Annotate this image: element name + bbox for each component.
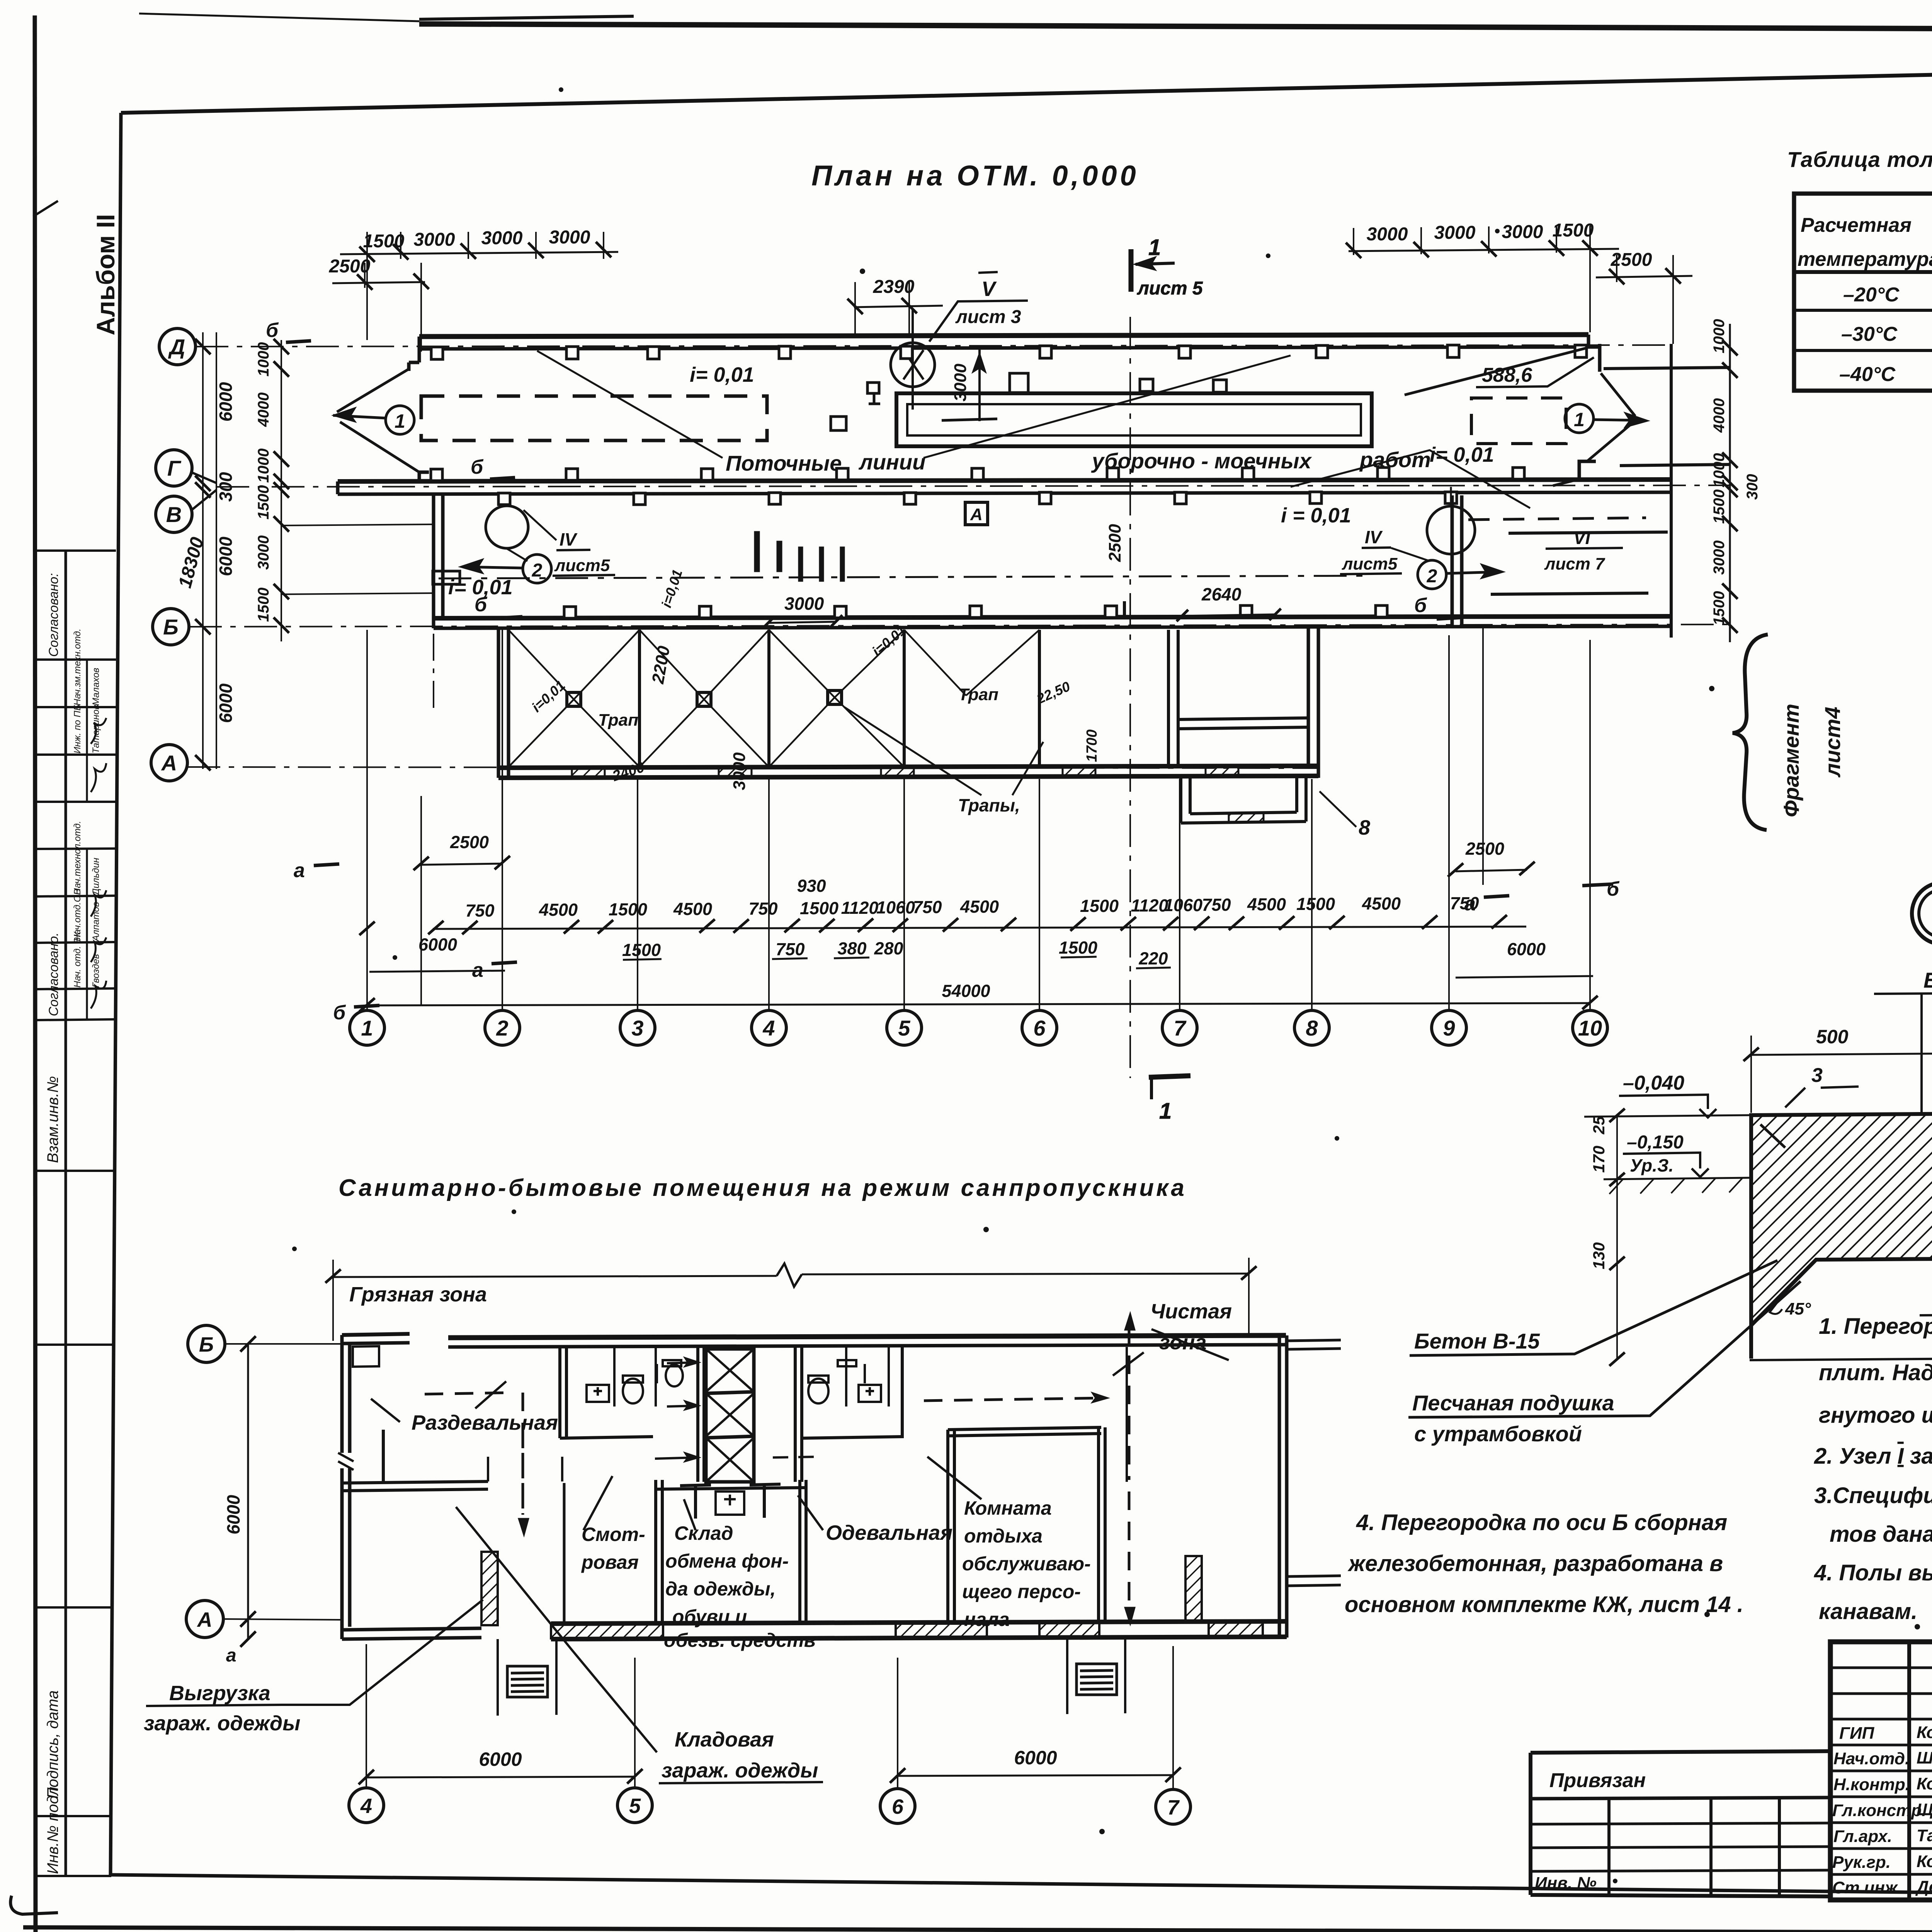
- svg-text:1000: 1000: [255, 342, 272, 377]
- svg-text:Грязная зона: Грязная зона: [349, 1283, 487, 1306]
- svg-text:да одежды,: да одежды,: [665, 1578, 776, 1600]
- svg-text:Коростелев: Коростелев: [1917, 1723, 1932, 1742]
- svg-text:температураtн: температураtн: [1798, 248, 1932, 270]
- svg-text:Деревянкина: Деревянкина: [1915, 1878, 1932, 1896]
- part labels 3,5,4: [1785, 1064, 1932, 1187]
- svg-text:4500: 4500: [1362, 894, 1401, 913]
- svg-text:–0,040: –0,040: [1623, 1072, 1684, 1094]
- svg-text:–40°С: –40°С: [1839, 363, 1896, 386]
- dashed pit (left): [421, 396, 767, 440]
- svg-text:лист5: лист5: [1342, 554, 1398, 573]
- axis Г/В wall band: [338, 468, 1671, 505]
- svg-text:750: 750: [465, 901, 494, 920]
- svg-text:Выгрузка: Выгрузка: [169, 1682, 270, 1705]
- svg-text:1500: 1500: [1296, 894, 1335, 914]
- left end of top bay: [409, 337, 419, 371]
- svg-text:Бетон . Мрз 50: Бетон . Мрз 50: [1923, 968, 1932, 992]
- pilasters on top wall: [431, 345, 1587, 359]
- 588,6 label: [1476, 357, 1594, 387]
- svg-text:6: 6: [1033, 1016, 1046, 1040]
- svg-text:Инв.№ подл.: Инв.№ подл.: [44, 1782, 61, 1874]
- svg-text:Взам.инв.№: Взам.инв.№: [44, 1076, 61, 1163]
- svg-text:обезв. средств: обезв. средств: [664, 1629, 816, 1651]
- SPECKS: [292, 87, 1932, 1883]
- svg-text:3000: 3000: [549, 227, 590, 248]
- vertical grid extension lines: [367, 625, 1590, 1010]
- svg-text:3: 3: [1811, 1064, 1823, 1087]
- svg-text:2: 2: [532, 560, 543, 581]
- A box label: [965, 502, 988, 525]
- svg-text:1500: 1500: [622, 940, 661, 960]
- lower stub bay below cols 7-8: [1181, 778, 1306, 823]
- dashed pit (right, top bay): [1471, 398, 1566, 444]
- svg-text:6000: 6000: [216, 382, 236, 422]
- svg-text:лист4: лист4: [1820, 707, 1845, 778]
- small equipment marks in top bay: [831, 383, 880, 430]
- top dim line with break: [325, 1258, 1257, 1341]
- svg-text:линии: линии: [858, 450, 925, 474]
- mid bay right end wall: [1452, 495, 1462, 625]
- svg-text:6000: 6000: [418, 935, 457, 954]
- svg-text:Комната: Комната: [964, 1497, 1052, 1519]
- svg-text:1060: 1060: [876, 898, 915, 917]
- svg-text:6000: 6000: [223, 1495, 243, 1534]
- svg-text:V: V: [981, 277, 997, 301]
- svg-text:Склад: Склад: [674, 1522, 733, 1544]
- svg-text:Кладовая: Кладовая: [675, 1728, 774, 1751]
- svg-text:гнутого швеллера. Расход шв: гнутого швеллера. Расход швеллера см . с…: [1819, 1403, 1932, 1428]
- axis chain lines: [187, 317, 1730, 1078]
- svg-text:Трап: Трап: [598, 711, 638, 730]
- left dim chain of detail: [1609, 1109, 1625, 1366]
- stamp boxes: [37, 551, 116, 802]
- svg-text:Гл.арх.: Гл.арх.: [1833, 1827, 1892, 1846]
- svg-text:А: А: [970, 505, 983, 524]
- svg-text:3000: 3000: [414, 230, 455, 250]
- leader labels below detail: [1408, 1260, 1801, 1446]
- svg-text:Раздевальная: Раздевальная: [412, 1411, 558, 1434]
- svg-text:4: 4: [762, 1016, 775, 1040]
- svg-text:Расчетная: Расчетная: [1801, 214, 1912, 236]
- ventilation grates: [498, 1637, 1125, 1716]
- svg-text:2: 2: [496, 1016, 508, 1040]
- svg-text:с утрамбовкой: с утрамбовкой: [1414, 1422, 1582, 1446]
- svg-text:б: б: [333, 1002, 346, 1024]
- room labels: [144, 1283, 1232, 1782]
- svg-text:1000: 1000: [1711, 319, 1728, 354]
- svg-text:1500: 1500: [1553, 220, 1594, 241]
- svg-text:зараж. одежды: зараж. одежды: [662, 1759, 818, 1782]
- svg-text:1: 1: [1574, 409, 1585, 430]
- svg-text:8: 8: [1359, 816, 1370, 839]
- lower block walls: [498, 628, 1318, 778]
- svg-text:Фрагмент: Фрагмент: [1779, 704, 1803, 817]
- svg-text:Гл.констр.: Гл.констр.: [1832, 1801, 1926, 1820]
- svg-text:4. Перегородка по оси Б сборн: 4. Перегородка по оси Б сборная: [1356, 1510, 1727, 1535]
- svg-text:750: 750: [1202, 895, 1231, 915]
- svg-text:А: А: [161, 751, 177, 775]
- svg-text:б: б: [471, 456, 484, 478]
- slope labels i=0,01: [448, 363, 1494, 599]
- svg-text:300: 300: [1744, 474, 1761, 500]
- svg-text:1120: 1120: [1131, 896, 1168, 915]
- svg-text:130: 130: [1590, 1242, 1608, 1269]
- svg-text:2500: 2500: [1611, 250, 1652, 270]
- right mirrored: [808, 1379, 828, 1403]
- svg-text:План на ОТМ. 0,000: План на ОТМ. 0,000: [811, 160, 1139, 192]
- NOTES: [1345, 1314, 1932, 1624]
- svg-text:280: 280: [874, 939, 903, 958]
- svg-text:4. Полы выполнять с уклоно: 4. Полы выполнять с уклоном к трапам и: [1814, 1560, 1932, 1585]
- section marks б / а around plan: [266, 319, 1620, 1024]
- wall thickness table: [1787, 147, 1932, 391]
- arrow + circle 1 (right): [1565, 404, 1648, 433]
- arrow + circle 1 (left): [333, 406, 414, 434]
- svg-text:Малахов: Малахов: [91, 668, 101, 706]
- svg-text:Одевальная: Одевальная: [826, 1521, 952, 1544]
- right end of top bay: [1588, 335, 1600, 372]
- svg-text:канавам.: канавам.: [1819, 1599, 1917, 1624]
- svg-text:4000: 4000: [255, 393, 272, 427]
- svg-text:–0,150: –0,150: [1627, 1132, 1684, 1153]
- mid bay left node: [460, 506, 615, 583]
- LEFTCOL: [37, 214, 120, 1876]
- svg-text:а: а: [226, 1645, 236, 1666]
- vertical dim Б-А: [223, 1336, 342, 1666]
- svg-text:2640: 2640: [1201, 584, 1242, 604]
- left columns of main stamp: [1909, 1642, 1932, 1900]
- Бетон Мрз 50 / В-15 labels: [1874, 968, 1932, 1115]
- svg-text:IV: IV: [1365, 527, 1383, 547]
- svg-text:Инв. №: Инв. №: [1535, 1874, 1597, 1893]
- bottom dims 6000 6000: [359, 1644, 1181, 1790]
- svg-text:б: б: [1414, 594, 1427, 617]
- svg-text:Н.контр.: Н.контр.: [1833, 1775, 1910, 1794]
- svg-text:3: 3: [631, 1016, 643, 1040]
- V / лист 3 survey mark: [891, 272, 1028, 410]
- svg-text:45°: 45°: [1785, 1299, 1811, 1318]
- svg-text:4500: 4500: [673, 899, 712, 919]
- svg-text:2: 2: [1427, 566, 1437, 587]
- svg-text:железобетонная, разработана в: железобетонная, разработана в: [1347, 1551, 1723, 1576]
- svg-text:Б: Б: [163, 615, 179, 639]
- svg-text:–30°С: –30°С: [1841, 323, 1898, 345]
- svg-text:Поточные: Поточные: [726, 451, 842, 475]
- long leaders of flow lines: [537, 351, 1530, 508]
- svg-text:6000: 6000: [216, 536, 236, 576]
- svg-text:1060: 1060: [1164, 895, 1202, 915]
- svg-text:1500: 1500: [255, 485, 272, 520]
- svg-text:300: 300: [216, 472, 236, 502]
- svg-text:А: А: [197, 1608, 213, 1631]
- svg-text:2500: 2500: [450, 832, 489, 852]
- floor drains and slopes: [509, 568, 1073, 815]
- svg-text:500: 500: [1816, 1026, 1849, 1048]
- svg-text:лист5: лист5: [554, 556, 610, 575]
- svg-text:6: 6: [892, 1795, 904, 1818]
- svg-text:Согласовано:: Согласовано:: [46, 573, 61, 657]
- privyazan table: [1531, 1751, 1830, 1896]
- svg-text:588,6: 588,6: [1482, 364, 1532, 386]
- svg-text:8: 8: [1306, 1016, 1318, 1040]
- svg-text:плит. Над дверными проемам: плит. Над дверными проемами устанавливат…: [1819, 1360, 1932, 1385]
- svg-text:тов дана на листе 5.: тов дана на листе 5.: [1830, 1522, 1932, 1547]
- svg-text:3000: 3000: [1367, 224, 1408, 245]
- svg-text:Колчев: Колчев: [1917, 1852, 1932, 1871]
- svg-text:1000: 1000: [255, 449, 272, 483]
- svg-text:3000: 3000: [481, 228, 523, 248]
- svg-text:Дильдин: Дильдин: [91, 858, 101, 896]
- svg-text:б: б: [266, 319, 279, 342]
- svg-text:лист 5: лист 5: [1137, 278, 1203, 299]
- svg-text:6000: 6000: [216, 683, 236, 723]
- svg-text:1: 1: [1148, 235, 1161, 260]
- bottom dimension chains: [359, 856, 1598, 1012]
- svg-text:6000: 6000: [1507, 939, 1546, 959]
- svg-text:750: 750: [1450, 893, 1479, 913]
- svg-text:Ст.инж.: Ст.инж.: [1832, 1878, 1902, 1897]
- svg-text:i= 0,01: i= 0,01: [690, 363, 754, 386]
- svg-text:3.Спецификация перемычек, две: 3.Спецификация перемычек, дверей, ворот …: [1814, 1483, 1932, 1508]
- svg-text:6000: 6000: [479, 1748, 522, 1770]
- svg-text:1. Перегородки толщиной 80м: 1. Перегородки толщиной 80мм., в осях 3÷…: [1819, 1314, 1932, 1339]
- svg-text:3000: 3000: [951, 364, 970, 401]
- svg-text:7: 7: [1167, 1796, 1180, 1819]
- svg-text:220: 220: [1138, 949, 1168, 968]
- svg-text:Б: Б: [199, 1333, 214, 1356]
- svg-text:1500: 1500: [1080, 896, 1119, 916]
- rotated dims in plan: [648, 364, 1124, 790]
- svg-text:Нач.зм.техн.отд.: Нач.зм.техн.отд.: [72, 629, 83, 706]
- svg-text:3000: 3000: [784, 594, 824, 614]
- svg-text:1700: 1700: [1084, 730, 1100, 762]
- svg-text:4: 4: [360, 1794, 372, 1818]
- svg-text:1: 1: [1159, 1099, 1172, 1124]
- svg-text:Шуваев: Шуваев: [1917, 1748, 1932, 1767]
- svg-text:Рук.гр.: Рук.гр.: [1832, 1853, 1891, 1872]
- svg-text:Трап: Трап: [958, 685, 998, 704]
- svg-text:основном комплекте КЖ, лист 1: основном комплекте КЖ, лист 14 .: [1345, 1592, 1743, 1617]
- svg-text:750: 750: [748, 899, 777, 918]
- svg-text:3000: 3000: [1502, 222, 1543, 242]
- svg-text:4500: 4500: [1247, 895, 1286, 914]
- svg-text:Согласовано.: Согласовано.: [46, 932, 61, 1016]
- svg-text:1: 1: [395, 410, 405, 432]
- svg-text:лист 7: лист 7: [1544, 554, 1605, 573]
- elevation marks: [1584, 1072, 1751, 1194]
- svg-text:1500: 1500: [1711, 591, 1728, 626]
- main hatched concrete body: [1750, 1114, 1932, 1360]
- svg-text:1000: 1000: [1711, 453, 1728, 488]
- svg-text:обмена фон-: обмена фон-: [665, 1550, 789, 1572]
- svg-text:Привязан: Привязан: [1549, 1769, 1646, 1792]
- svg-text:2. Узел I замаркирован на ли: 2. Узел I замаркирован на листе 5.: [1814, 1444, 1932, 1469]
- svg-text:1500: 1500: [363, 231, 405, 252]
- svg-text:Д: Д: [168, 335, 185, 359]
- svg-text:–20°С: –20°С: [1843, 284, 1900, 306]
- svg-text:Нач. отд. ВК: Нач. отд. ВК: [72, 931, 83, 988]
- svg-text:9: 9: [1443, 1016, 1455, 1040]
- svg-text:750: 750: [913, 897, 942, 917]
- svg-text:IV: IV: [560, 529, 578, 549]
- building outline: [338, 1334, 1287, 1639]
- svg-text:930: 930: [797, 876, 826, 896]
- svg-text:обуви и: обуви и: [672, 1606, 747, 1628]
- grid circles 1-10: [350, 1010, 1607, 1045]
- svg-text:25: 25: [1590, 1116, 1608, 1134]
- svg-text:Бетон В-15: Бетон В-15: [1414, 1329, 1540, 1353]
- svg-text:3000: 3000: [1434, 223, 1476, 243]
- svg-text:5: 5: [898, 1016, 910, 1040]
- svg-text:5: 5: [629, 1794, 641, 1818]
- small exterior bits right: [353, 1340, 1341, 1586]
- svg-text:6000: 6000: [1014, 1747, 1057, 1769]
- svg-text:1120: 1120: [841, 898, 879, 918]
- svg-text:В: В: [166, 502, 182, 527]
- flow line labels: [726, 447, 1431, 475]
- left vertical dim chains: [195, 332, 289, 770]
- section mark 1 (bottom): [1149, 1076, 1190, 1124]
- svg-text:1500: 1500: [1059, 938, 1097, 957]
- svg-text:б: б: [1607, 878, 1620, 900]
- svg-text:3000: 3000: [1711, 541, 1728, 575]
- wash tunnel rect (center): [896, 373, 1372, 446]
- svg-text:i = 0,01: i = 0,01: [1281, 504, 1351, 527]
- sink below shaft: [716, 1492, 744, 1515]
- mid bay left end wall: [281, 494, 443, 709]
- svg-text:1500: 1500: [800, 898, 838, 918]
- svg-text:Песчаная подушка: Песчаная подушка: [1412, 1391, 1614, 1415]
- svg-text:3000: 3000: [255, 536, 272, 570]
- svg-text:Таблица толщин наружных стен: Таблица толщин наружных стен: [1787, 147, 1932, 172]
- 3000 / 2640 dims inside block: [763, 584, 1370, 839]
- svg-text:лист 3: лист 3: [955, 307, 1021, 327]
- svg-text:Нач.отд.: Нач.отд.: [1833, 1749, 1910, 1768]
- svg-text:Санитарно-бытовые помещения: Санитарно-бытовые помещения на режим сан…: [338, 1175, 1187, 1201]
- flow arrows: [655, 1357, 819, 1462]
- wc fixtures left: [587, 1360, 881, 1519]
- node marker circle I: [1912, 883, 1932, 944]
- svg-text:1500: 1500: [1711, 490, 1728, 524]
- svg-text:отдыха: отдыха: [964, 1525, 1043, 1547]
- svg-text:уборочно - моечных: уборочно - моечных: [1091, 449, 1312, 473]
- dashed route lines: [425, 1325, 1129, 1611]
- building walls: top bay (axis Д): [337, 335, 1635, 486]
- svg-text:1500: 1500: [255, 588, 272, 622]
- svg-text:ГИП: ГИП: [1839, 1724, 1875, 1743]
- svg-text:Чистая: Чистая: [1150, 1300, 1232, 1323]
- svg-text:7: 7: [1173, 1016, 1187, 1040]
- TITLE_BLOCK: [1830, 1642, 1932, 1900]
- svg-text:Инж. по ПБ: Инж. по ПБ: [72, 705, 83, 753]
- svg-text:VI: VI: [1573, 528, 1591, 548]
- elevator shaft with X bracing: [706, 1349, 754, 1482]
- svg-text:щего персо-: щего персо-: [962, 1581, 1081, 1602]
- paper left edge bar: [35, 15, 36, 1932]
- svg-text:4500: 4500: [960, 897, 999, 917]
- svg-text:нала: нала: [964, 1609, 1010, 1630]
- svg-text:750: 750: [776, 939, 804, 959]
- svg-text:2500: 2500: [1465, 839, 1504, 859]
- svg-text:Трапы,: Трапы,: [958, 795, 1020, 815]
- svg-text:10: 10: [1578, 1016, 1602, 1040]
- svg-text:обслуживаю-: обслуживаю-: [962, 1553, 1091, 1575]
- mid bay: conveyor line and brushes: [433, 531, 1368, 584]
- svg-text:2500: 2500: [1105, 524, 1124, 562]
- svg-text:1500: 1500: [609, 900, 647, 919]
- svg-text:зараж. одежды: зараж. одежды: [144, 1712, 300, 1735]
- svg-text:Нач.технол.отд.: Нач.технол.отд.: [72, 821, 83, 895]
- 500 dim: [1743, 1026, 1932, 1113]
- section mark 1 / лист 5 (top): [1131, 235, 1203, 299]
- fragment brace + label: [1733, 634, 1845, 830]
- svg-text:Смот-: Смот-: [582, 1524, 645, 1545]
- svg-text:2500: 2500: [329, 256, 371, 277]
- mid bay right node: [1340, 487, 1623, 589]
- axis letter circles: [151, 328, 216, 781]
- svg-text:Кокорев: Кокорев: [1917, 1774, 1932, 1793]
- svg-text:4500: 4500: [539, 900, 578, 920]
- svg-text:ровая: ровая: [581, 1551, 639, 1573]
- svg-text:54000: 54000: [942, 981, 990, 1001]
- interior walls: [342, 1347, 1127, 1624]
- svg-text:2390: 2390: [873, 277, 915, 297]
- svg-text:Тарламов: Тарламов: [1917, 1826, 1932, 1845]
- svg-text:380: 380: [837, 939, 866, 958]
- right end wall + right dim chain: [1491, 324, 1738, 642]
- svg-text:а: а: [294, 859, 305, 882]
- svg-text:Г: Г: [167, 456, 182, 480]
- vertical 3000 dim line: [942, 350, 997, 421]
- svg-text:4000: 4000: [1711, 398, 1728, 433]
- paper top edge: [419, 24, 1932, 31]
- svg-text:Щеголев: Щеголев: [1917, 1800, 1932, 1819]
- paper bottom lines: [23, 1927, 1932, 1932]
- axis Б wall band: [434, 605, 1671, 628]
- svg-text:б: б: [474, 594, 488, 616]
- axis circles Б А 4 5 6 7: [186, 1325, 1190, 1824]
- svg-text:1: 1: [361, 1016, 373, 1040]
- svg-text:170: 170: [1590, 1146, 1608, 1173]
- signatures squiggles in left column: [91, 718, 106, 1009]
- top dimension chains: [332, 226, 1692, 352]
- svg-text:Алпатов: Алпатов: [91, 902, 101, 942]
- svg-text:Альбом II: Альбом II: [91, 214, 120, 335]
- svg-text:Ур.З.: Ур.З.: [1630, 1155, 1673, 1175]
